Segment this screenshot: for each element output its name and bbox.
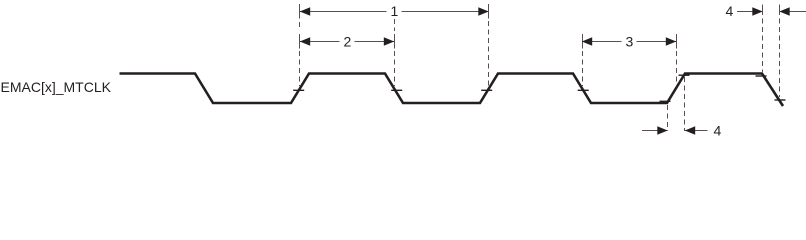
svg-text:2: 2: [344, 34, 352, 50]
dimension 4 bottom (rise time): [642, 123, 722, 139]
wire dashed extension at x=676: [676, 34, 678, 84]
node cross tick rise6 top corner: [679, 74, 690, 76]
dimension 3 (low pulse width): [582, 34, 676, 50]
wire dashed extension at x=763: [762, 5, 764, 73]
node cross tick fall7 top corner: [756, 75, 767, 77]
node cross tick fall at x=394: [391, 89, 402, 91]
svg-text:EMAC[x]_MTCLK: EMAC[x]_MTCLK: [1, 79, 112, 95]
wire dashed extension at x=779.5: [779, 5, 781, 98]
wire dashed extension at x=685: [684, 77, 686, 131]
wire clock waveform EMAC[x]_MTCLK: [120, 74, 784, 107]
dimension 1 (period): [300, 3, 489, 19]
svg-text:1: 1: [391, 3, 399, 19]
node cross tick fall at x=582: [578, 89, 589, 91]
node cross tick fall7 bottom corner: [775, 99, 786, 101]
node cross tick rise at x=300: [293, 89, 304, 91]
wire dashed extension at x=668 below waveform: [667, 105, 669, 131]
node cross tick rise6 bottom corner: [660, 100, 671, 102]
wire dashed extension at x=394: [394, 19, 396, 86]
dimension 2 (high pulse width): [300, 34, 394, 50]
wire dashed extension at x=300: [299, 4, 301, 86]
svg-text:4: 4: [714, 123, 722, 137]
svg-text:4: 4: [726, 3, 734, 19]
node cross tick rise at x=489: [481, 89, 492, 91]
wire dashed extension at x=488.5: [488, 4, 490, 86]
dimension 4 top (fall time): [726, 3, 806, 19]
svg-text:3: 3: [626, 34, 634, 50]
wire dashed extension at x=582: [582, 34, 584, 86]
